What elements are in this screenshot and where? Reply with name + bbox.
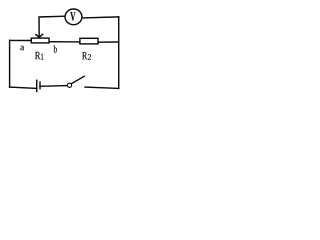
voltmeter circle <box>65 9 82 25</box>
battery short plate <box>39 82 41 89</box>
battery long plate <box>36 80 38 91</box>
label R2 <box>82 52 87 59</box>
node b label <box>54 45 57 52</box>
wire switch to bottom right corner <box>85 87 119 88</box>
wire left edge <box>9 40 11 87</box>
switch lever <box>71 76 84 83</box>
wire voltmeter to right edge <box>82 17 118 18</box>
node a label <box>20 46 24 51</box>
switch pivot circle <box>67 83 71 87</box>
resistor R2 body <box>80 38 98 44</box>
wire R2 to right edge <box>98 41 119 43</box>
label R1 <box>35 52 40 59</box>
wire bottom left to battery <box>10 87 37 88</box>
resistor R1 body (rheostat) <box>31 38 49 43</box>
wire top-left corner to R1 <box>10 39 32 41</box>
wire slider riser to voltmeter <box>39 16 65 37</box>
wire R1 to R2 <box>49 41 80 43</box>
wire right edge <box>118 17 120 89</box>
wire battery to switch <box>40 85 67 88</box>
voltmeter letter V <box>70 12 75 21</box>
slider arrowhead on R1 <box>36 34 43 37</box>
